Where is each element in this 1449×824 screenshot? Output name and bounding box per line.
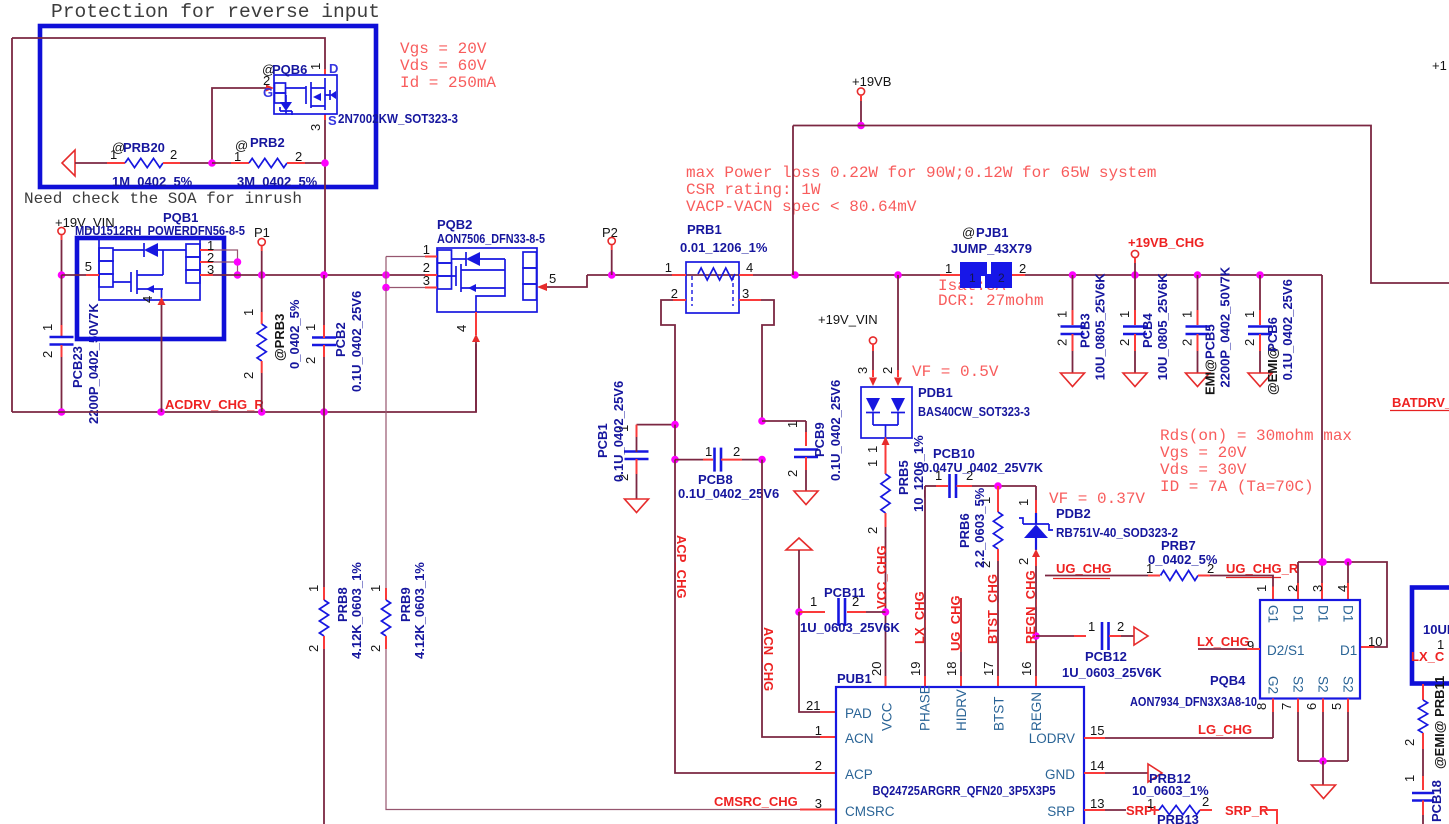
- svg-text:1U_0603_25V6K: 1U_0603_25V6K: [1062, 665, 1162, 680]
- svg-text:1: 1: [969, 271, 976, 285]
- svg-text:18: 18: [944, 662, 959, 676]
- svg-text:2: 2: [1117, 339, 1132, 346]
- svg-text:BTST_CHG: BTST_CHG: [985, 574, 1000, 644]
- svg-text:BQ24725ARGRR_QFN20_3P5X3P5: BQ24725ARGRR_QFN20_3P5X3P5: [873, 783, 1056, 798]
- svg-text:PRB20: PRB20: [123, 140, 165, 155]
- svg-text:10UH: 10UH: [1423, 622, 1449, 637]
- svg-text:2: 2: [306, 645, 321, 652]
- svg-text:@PRB3: @PRB3: [272, 314, 287, 361]
- svg-text:1: 1: [1055, 311, 1070, 318]
- svg-text:2200P_0402_50V7K: 2200P_0402_50V7K: [86, 303, 101, 424]
- svg-text:PCB8: PCB8: [698, 472, 733, 487]
- svg-text:PCB1: PCB1: [595, 423, 610, 458]
- svg-text:AON7934_DFN3X3A8-10: AON7934_DFN3X3A8-10: [1130, 694, 1257, 709]
- svg-text:1: 1: [234, 149, 241, 164]
- svg-text:0.1U_0402_25V6: 0.1U_0402_25V6: [828, 380, 843, 481]
- svg-text:PCB10: PCB10: [933, 446, 975, 461]
- svg-text:ACP_CHG: ACP_CHG: [674, 535, 689, 599]
- svg-text:4: 4: [454, 325, 469, 332]
- svg-text:PQB2: PQB2: [437, 217, 472, 232]
- svg-text:+1: +1: [1432, 58, 1447, 73]
- svg-text:3: 3: [423, 273, 430, 288]
- svg-text:17: 17: [981, 662, 996, 676]
- svg-text:Vgs = 20V: Vgs = 20V: [1160, 444, 1247, 462]
- svg-text:4.12K_0603_1%: 4.12K_0603_1%: [349, 562, 364, 659]
- svg-text:13: 13: [1090, 796, 1104, 811]
- svg-text:D1: D1: [1291, 605, 1306, 622]
- svg-text:D1: D1: [1316, 605, 1331, 622]
- svg-text:UG_CHG: UG_CHG: [1056, 561, 1112, 576]
- svg-text:3: 3: [855, 367, 870, 374]
- svg-text:PRB8: PRB8: [335, 587, 350, 622]
- svg-text:Need check the SOA for inrush: Need check the SOA for inrush: [24, 190, 302, 208]
- svg-text:1: 1: [1117, 311, 1132, 318]
- svg-text:BATDRV_C: BATDRV_C: [1392, 395, 1449, 410]
- svg-text:@: @: [962, 225, 975, 240]
- svg-text:PRB1: PRB1: [687, 222, 722, 237]
- svg-text:2: 2: [1055, 339, 1070, 346]
- svg-text:7: 7: [1279, 703, 1294, 710]
- svg-text:VCC: VCC: [880, 702, 895, 731]
- svg-text:1: 1: [40, 324, 55, 331]
- svg-text:2: 2: [170, 147, 177, 162]
- svg-text:15: 15: [1090, 723, 1104, 738]
- svg-text:LX_CHG: LX_CHG: [1197, 634, 1250, 649]
- svg-text:9: 9: [1247, 638, 1254, 653]
- svg-text:PQB4: PQB4: [1210, 673, 1246, 688]
- svg-text:Rds(on) = 30mohm max: Rds(on) = 30mohm max: [1160, 427, 1352, 445]
- svg-text:2: 2: [1402, 739, 1417, 746]
- svg-text:LODRV: LODRV: [1029, 731, 1075, 746]
- svg-text:G1: G1: [1266, 605, 1281, 623]
- svg-text:0.1U_0402_25V6: 0.1U_0402_25V6: [678, 486, 779, 501]
- svg-text:VACP-VACN spec < 80.64mV: VACP-VACN spec < 80.64mV: [686, 198, 917, 216]
- svg-text:1U_0603_25V6K: 1U_0603_25V6K: [800, 620, 900, 635]
- svg-text:BAS40CW_SOT323-3: BAS40CW_SOT323-3: [918, 404, 1030, 419]
- svg-text:PCB18: PCB18: [1429, 780, 1444, 822]
- svg-text:ACP: ACP: [845, 767, 873, 782]
- svg-text:PRB7: PRB7: [1161, 538, 1196, 553]
- svg-text:1: 1: [241, 309, 256, 316]
- svg-text:2: 2: [671, 286, 678, 301]
- svg-text:2: 2: [865, 527, 880, 534]
- svg-text:PRB5: PRB5: [896, 460, 911, 495]
- svg-text:1: 1: [815, 723, 822, 738]
- svg-text:G2: G2: [1266, 676, 1281, 694]
- svg-text:Id = 250mA: Id = 250mA: [400, 74, 496, 92]
- svg-text:PQB6: PQB6: [272, 62, 307, 77]
- svg-text:16: 16: [1019, 662, 1034, 676]
- svg-text:LX_C: LX_C: [1411, 649, 1445, 664]
- svg-text:1: 1: [1147, 796, 1154, 811]
- svg-text:REGN: REGN: [1029, 692, 1044, 731]
- svg-text:EMI@: EMI@: [1203, 359, 1218, 395]
- svg-text:1: 1: [865, 460, 880, 467]
- svg-text:+19VB: +19VB: [852, 74, 891, 89]
- svg-text:2: 2: [1180, 339, 1195, 346]
- svg-text:REGN_CHG: REGN_CHG: [1023, 570, 1038, 644]
- svg-text:1: 1: [705, 444, 712, 459]
- svg-text:Vds = 60V: Vds = 60V: [400, 57, 487, 75]
- svg-text:D2/S1: D2/S1: [1267, 643, 1305, 658]
- svg-text:10: 10: [1368, 634, 1382, 649]
- svg-text:2: 2: [998, 271, 1005, 285]
- svg-text:0_0402_5%: 0_0402_5%: [287, 299, 302, 369]
- svg-text:19: 19: [908, 662, 923, 676]
- svg-text:2: 2: [368, 645, 383, 652]
- svg-text:CSR rating: 1W: CSR rating: 1W: [686, 181, 821, 199]
- svg-text:JUMP_43X79: JUMP_43X79: [951, 241, 1032, 256]
- svg-text:2: 2: [303, 357, 318, 364]
- svg-text:4.12K_0603_1%: 4.12K_0603_1%: [412, 562, 427, 659]
- svg-text:GND: GND: [1045, 767, 1075, 782]
- svg-text:max Power loss 0.22W for 90W;0: max Power loss 0.22W for 90W;0.12W for 6…: [686, 164, 1156, 182]
- svg-text:PCB3: PCB3: [1078, 313, 1093, 348]
- svg-text:10_0603_1%: 10_0603_1%: [1132, 783, 1209, 798]
- svg-text:+19V_VIN: +19V_VIN: [818, 312, 878, 327]
- svg-text:0.047U_0402_25V7K: 0.047U_0402_25V7K: [922, 460, 1044, 475]
- svg-text:ACDRV_CHG_R: ACDRV_CHG_R: [165, 397, 264, 412]
- svg-text:PRB6: PRB6: [957, 513, 972, 548]
- svg-text:ID = 7A (Ta=70C): ID = 7A (Ta=70C): [1160, 478, 1314, 496]
- svg-text:VCC_CHG: VCC_CHG: [874, 545, 889, 609]
- svg-text:PAD: PAD: [845, 706, 872, 721]
- svg-text:0.1U_0402_25V6: 0.1U_0402_25V6: [349, 291, 364, 392]
- svg-text:2N7002KW_SOT323-3: 2N7002KW_SOT323-3: [338, 111, 458, 126]
- svg-text:RB751V-40_SOD323-2: RB751V-40_SOD323-2: [1056, 525, 1178, 540]
- svg-text:8: 8: [1254, 703, 1269, 710]
- svg-text:LG_CHG: LG_CHG: [1198, 722, 1252, 737]
- svg-text:PCB5: PCB5: [1203, 324, 1218, 359]
- svg-text:G: G: [263, 85, 273, 100]
- svg-text:BTST: BTST: [992, 696, 1007, 731]
- svg-text:PCB11: PCB11: [824, 585, 865, 600]
- svg-text:5: 5: [85, 259, 92, 274]
- svg-text:3: 3: [815, 796, 822, 811]
- svg-text:2: 2: [785, 470, 800, 477]
- svg-text:D1: D1: [1341, 605, 1356, 622]
- svg-text:2200P_0402_50V7K: 2200P_0402_50V7K: [1218, 266, 1233, 387]
- svg-text:0.1U_0402_25V6: 0.1U_0402_25V6: [1280, 279, 1295, 380]
- svg-text:1: 1: [308, 63, 323, 70]
- svg-text:CMSRC_CHG: CMSRC_CHG: [714, 794, 798, 809]
- svg-text:D1: D1: [1340, 643, 1357, 658]
- svg-text:Vgs = 20V: Vgs = 20V: [400, 40, 487, 58]
- svg-text:@EMI@: @EMI@: [1265, 347, 1280, 395]
- svg-text:1: 1: [303, 324, 318, 331]
- svg-text:PCB4: PCB4: [1140, 313, 1155, 348]
- svg-text:PDB1: PDB1: [918, 385, 953, 400]
- svg-text:2: 2: [1242, 339, 1257, 346]
- svg-text:DCR: 27mohm: DCR: 27mohm: [938, 292, 1044, 310]
- svg-text:1: 1: [1254, 585, 1269, 592]
- svg-text:ACN: ACN: [845, 731, 874, 746]
- svg-text:4: 4: [140, 296, 155, 303]
- svg-text:1M_0402_5%: 1M_0402_5%: [112, 174, 193, 189]
- svg-text:SRP: SRP: [1047, 804, 1075, 819]
- svg-text:2: 2: [295, 149, 302, 164]
- svg-text:2.2_0603_5%: 2.2_0603_5%: [972, 487, 987, 568]
- svg-text:2: 2: [1019, 261, 1026, 276]
- svg-text:PCB6: PCB6: [1265, 317, 1280, 352]
- svg-text:2: 2: [815, 758, 822, 773]
- svg-text:4: 4: [746, 260, 753, 275]
- svg-text:6: 6: [1304, 703, 1319, 710]
- svg-text:@EMI@ PRB11: @EMI@ PRB11: [1432, 676, 1447, 769]
- svg-text:1: 1: [865, 446, 880, 453]
- svg-text:1: 1: [665, 260, 672, 275]
- svg-text:PRB13: PRB13: [1157, 812, 1199, 824]
- svg-text:+19VB_CHG: +19VB_CHG: [1128, 235, 1204, 250]
- svg-text:10U_0805_25V6K: 10U_0805_25V6K: [1155, 273, 1170, 381]
- svg-text:AON7506_DFN33-8-5: AON7506_DFN33-8-5: [437, 231, 545, 246]
- svg-text:LX_CHG: LX_CHG: [912, 591, 927, 644]
- svg-text:D: D: [329, 61, 338, 76]
- svg-text:1: 1: [1016, 499, 1031, 506]
- svg-text:PJB1: PJB1: [976, 225, 1009, 240]
- svg-text:1: 1: [306, 585, 321, 592]
- svg-text:PRB9: PRB9: [398, 587, 413, 622]
- svg-text:S: S: [328, 113, 337, 128]
- svg-text:2: 2: [733, 444, 740, 459]
- svg-text:S2: S2: [1291, 676, 1306, 693]
- svg-text:10U_0805_25V6K: 10U_0805_25V6K: [1093, 273, 1108, 381]
- svg-text:3: 3: [1310, 585, 1325, 592]
- svg-text:21: 21: [806, 698, 820, 713]
- svg-text:Vds = 30V: Vds = 30V: [1160, 461, 1247, 479]
- svg-text:ACN_CHG: ACN_CHG: [761, 627, 776, 691]
- svg-text:2: 2: [1016, 558, 1031, 565]
- svg-text:2: 2: [1285, 585, 1300, 592]
- svg-text:1: 1: [1402, 775, 1417, 782]
- svg-text:PCB12: PCB12: [1085, 649, 1127, 664]
- svg-text:2: 2: [241, 372, 256, 379]
- svg-text:1: 1: [810, 594, 817, 609]
- svg-text:0.1U_0402_25V6: 0.1U_0402_25V6: [611, 381, 626, 482]
- svg-text:1: 1: [1242, 311, 1257, 318]
- svg-text:2: 2: [40, 351, 55, 358]
- svg-text:5: 5: [1329, 703, 1344, 710]
- svg-text:1: 1: [945, 261, 952, 276]
- svg-text:1: 1: [368, 585, 383, 592]
- svg-text:14: 14: [1090, 758, 1104, 773]
- svg-text:HIDRV: HIDRV: [954, 689, 969, 731]
- svg-text:S2: S2: [1316, 676, 1331, 693]
- svg-text:2: 2: [1117, 619, 1124, 634]
- svg-text:PCB23: PCB23: [70, 346, 85, 388]
- svg-text:UG_CHG_R: UG_CHG_R: [1226, 561, 1299, 576]
- svg-text:3: 3: [742, 286, 749, 301]
- svg-text:0_0402_5%: 0_0402_5%: [1148, 552, 1218, 567]
- svg-text:1: 1: [1180, 311, 1195, 318]
- svg-text:5: 5: [549, 271, 556, 286]
- svg-text:PDB2: PDB2: [1056, 506, 1091, 521]
- svg-text:1: 1: [110, 147, 117, 162]
- svg-text:CMSRC: CMSRC: [845, 804, 895, 819]
- svg-text:4: 4: [1335, 585, 1350, 592]
- svg-text:1: 1: [785, 421, 800, 428]
- svg-text:PCB9: PCB9: [812, 422, 827, 457]
- svg-text:PHASE: PHASE: [918, 685, 933, 731]
- svg-text:Protection for reverse input: Protection for reverse input: [51, 1, 380, 23]
- svg-text:3: 3: [308, 124, 323, 131]
- svg-text:0.01_1206_1%: 0.01_1206_1%: [680, 240, 768, 255]
- svg-text:PUB1: PUB1: [837, 671, 872, 686]
- svg-text:1: 1: [423, 242, 430, 257]
- svg-text:3M_0402_5%: 3M_0402_5%: [237, 174, 318, 189]
- svg-text:PCB2: PCB2: [333, 322, 348, 357]
- svg-text:VF = 0.5V: VF = 0.5V: [912, 363, 999, 381]
- svg-text:PRB2: PRB2: [250, 135, 285, 150]
- svg-text:S2: S2: [1341, 676, 1356, 693]
- svg-text:2: 2: [880, 367, 895, 374]
- svg-text:2: 2: [1202, 794, 1209, 809]
- svg-text:1: 1: [1088, 619, 1095, 634]
